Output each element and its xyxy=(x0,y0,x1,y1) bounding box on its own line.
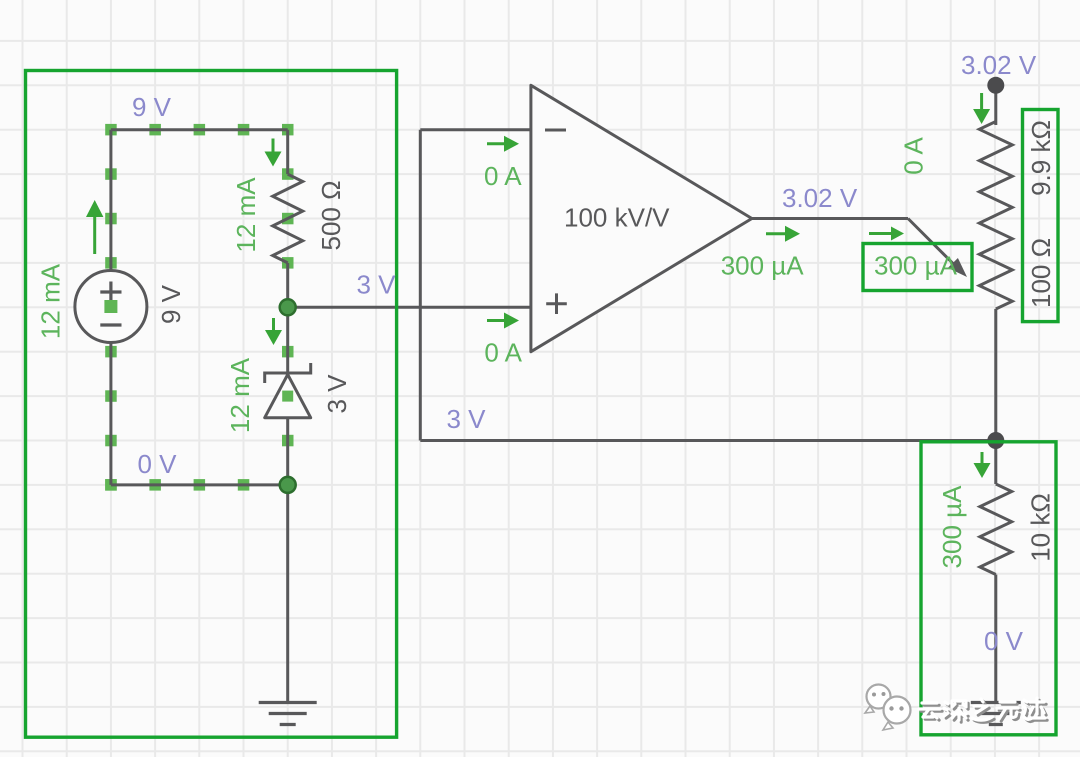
svg-text:12 mA: 12 mA xyxy=(225,357,255,433)
svg-text:12 mA: 12 mA xyxy=(231,177,261,253)
svg-text:9.9 kΩ: 9.9 kΩ xyxy=(1026,120,1056,196)
svg-text:9 V: 9 V xyxy=(132,92,172,122)
svg-text:0 V: 0 V xyxy=(138,449,178,479)
svg-text:3 V: 3 V xyxy=(322,374,352,414)
svg-text:300 µA: 300 µA xyxy=(721,250,805,280)
svg-text:3.02 V: 3.02 V xyxy=(782,183,858,213)
svg-text:3 V: 3 V xyxy=(357,270,397,300)
svg-text:0 A: 0 A xyxy=(484,338,522,368)
svg-text:0 A: 0 A xyxy=(899,137,929,175)
svg-text:9 V: 9 V xyxy=(156,284,186,324)
svg-text:300 µA: 300 µA xyxy=(874,251,958,281)
svg-text:0 A: 0 A xyxy=(484,161,522,191)
svg-text:12 mA: 12 mA xyxy=(36,263,66,339)
svg-text:100 Ω: 100 Ω xyxy=(1026,238,1056,308)
svg-text:300 µA: 300 µA xyxy=(937,485,967,569)
svg-text:3 V: 3 V xyxy=(447,404,487,434)
svg-text:100 kV/V: 100 kV/V xyxy=(564,203,670,233)
svg-text:10 kΩ: 10 kΩ xyxy=(1026,493,1056,562)
svg-text:3.02 V: 3.02 V xyxy=(961,50,1037,80)
svg-text:0 V: 0 V xyxy=(984,626,1024,656)
svg-text:500 Ω: 500 Ω xyxy=(316,180,346,250)
